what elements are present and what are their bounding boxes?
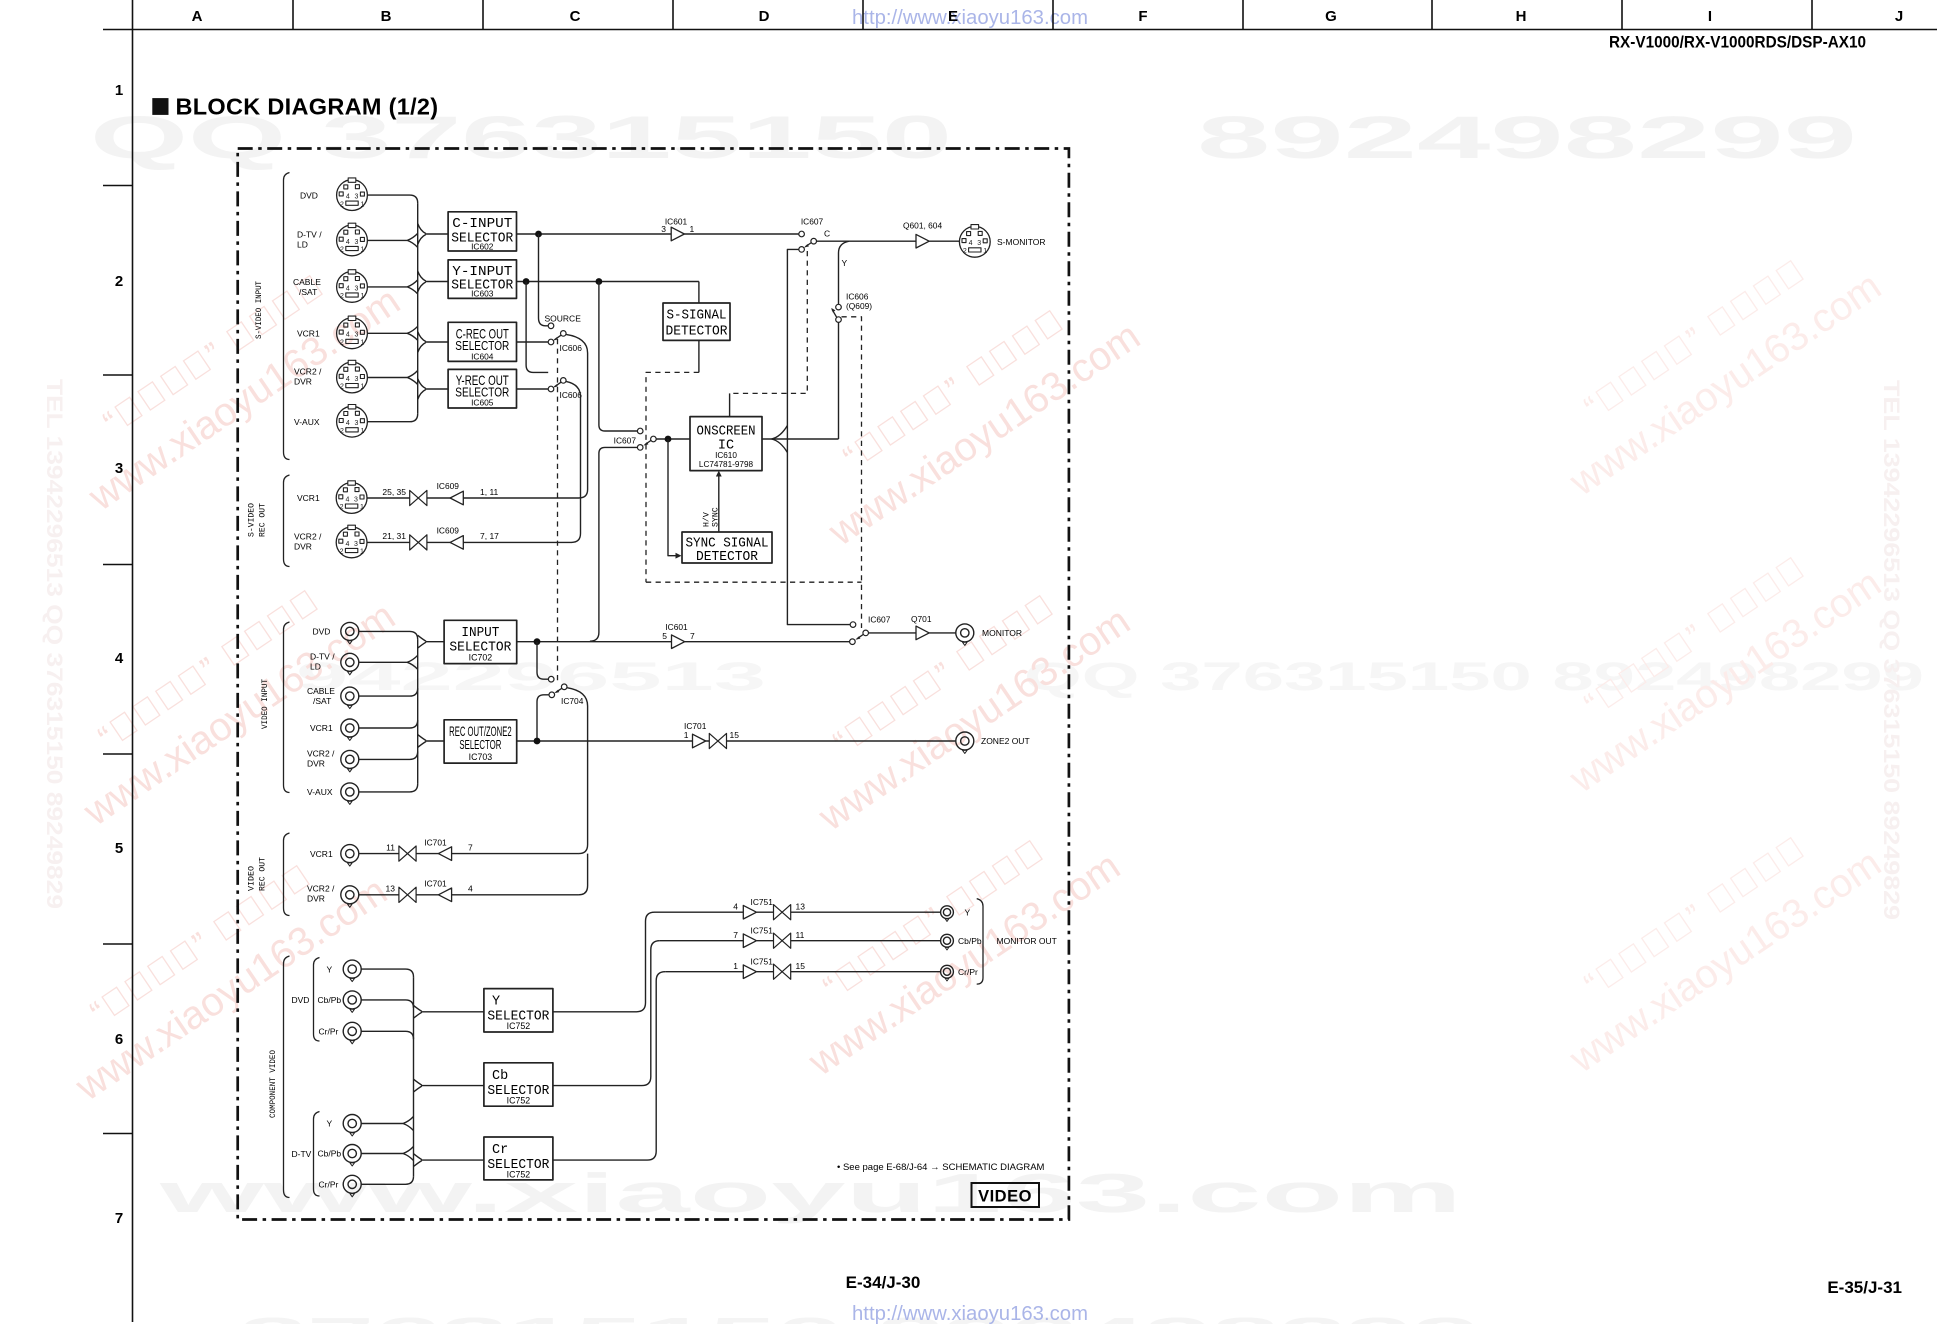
svg-text:/SAT: /SAT <box>299 287 317 297</box>
amp IC701 (zone2 1) <box>693 734 706 748</box>
wire IC601 out to IC607 row4 <box>685 641 850 643</box>
node funnel into REC OUT/ZONE2 SELECTOR <box>418 735 426 748</box>
switch IC607 (OSD input) <box>614 428 657 450</box>
wire IC607 common to ONSCREEN <box>656 438 690 440</box>
svg-text:IC751: IC751 <box>751 956 774 966</box>
svg-text:IC603: IC603 <box>471 289 494 299</box>
svg-text:LC74781-9798: LC74781-9798 <box>699 460 754 469</box>
amp IC601 (video 5-7) <box>672 635 685 649</box>
svg-text:SOURCE: SOURCE <box>545 313 582 323</box>
svg-text:13: 13 <box>796 901 806 911</box>
svg-text:1: 1 <box>690 224 695 234</box>
wire IC704 common to rec-out vertical <box>567 688 588 854</box>
svg-text:DVR: DVR <box>294 377 312 387</box>
transistor Q601,604 buffer <box>916 234 929 248</box>
svg-text:IC752: IC752 <box>507 1021 531 1031</box>
svg-text:INPUT: INPUT <box>461 626 499 641</box>
svg-text:Cr/Pr: Cr/Pr <box>319 1027 339 1037</box>
connector VCR1 vrec (rca) <box>341 845 359 867</box>
node funnel into INPUT SELECTOR <box>418 635 426 648</box>
svg-text:7: 7 <box>115 1210 123 1227</box>
brace VIDEO INPUT group <box>284 622 290 793</box>
transistor Q701 buffer <box>916 626 929 640</box>
wire IC606-C common to rec-out vertical <box>566 334 588 498</box>
svg-text:3: 3 <box>115 460 123 477</box>
IC752 Cb SELECTOR box <box>484 1063 553 1106</box>
svg-text:BLOCK DIAGRAM (1/2): BLOCK DIAGRAM (1/2) <box>176 94 439 120</box>
junction input-sel output <box>534 638 541 645</box>
svg-text:5: 5 <box>662 631 667 641</box>
wire Cb SELECTOR output riser <box>553 941 660 1086</box>
junction Y-out drop2 <box>596 278 603 285</box>
svg-text:S-VIDEO: S-VIDEO <box>247 503 257 537</box>
wire funnel to REC OUT/ZONE2 SELECTOR <box>426 740 445 742</box>
brace D-TV component sub-group <box>314 1112 320 1197</box>
wire OSD switch lower contact to row4 <box>590 447 638 641</box>
wire VCR1 to video bus <box>359 720 418 728</box>
svg-text:IC605: IC605 <box>471 397 494 407</box>
amp IC751 Cb pin7 <box>743 934 756 948</box>
connector DVD (s-video) <box>337 178 368 211</box>
dashed OSD box bottom <box>646 581 862 583</box>
wire CABLE/SAT to s-video bus <box>368 280 418 294</box>
IC605 Y-REC OUT SELECTOR box <box>448 369 516 408</box>
svg-text:DVR: DVR <box>307 759 325 769</box>
connector D-TV Cr/Pr (rca) <box>343 1175 361 1197</box>
wire REC OUT selector output to IC701 <box>517 740 693 742</box>
DIAGRAM BORDER dash-dot <box>238 149 1069 1220</box>
wire C-REC OUT selector output <box>517 341 549 343</box>
wire DVD to video bus <box>359 631 418 639</box>
S-SIGNAL DETECTOR box <box>663 303 730 340</box>
svg-text:D: D <box>759 8 770 25</box>
svg-text:IC752: IC752 <box>507 1170 531 1180</box>
node funnel into Y-INPUT SELECTOR <box>418 271 426 292</box>
wire DTV-Y to comp bus <box>361 1117 413 1131</box>
wire VCR1 rec line <box>367 497 579 499</box>
svg-text:http://www.xiaoyu163.com: http://www.xiaoyu163.com <box>852 1303 1088 1324</box>
wire IC607 row4 common to Q701 <box>868 632 916 634</box>
svg-text:IC607: IC607 <box>868 615 891 625</box>
svg-text:VCR2 /: VCR2 / <box>294 367 322 377</box>
wire DTV-Cr to comp bus <box>361 1176 413 1184</box>
connector S-MONITOR <box>959 225 990 258</box>
connector V-AUX (s-video) <box>337 405 368 438</box>
svg-text:3: 3 <box>661 224 666 234</box>
amp IC751 Y pin4 <box>743 905 756 919</box>
svg-text:SELECTOR: SELECTOR <box>459 737 501 752</box>
wire DVD-Y to comp bus <box>361 969 413 977</box>
svg-text:A: A <box>192 8 203 25</box>
switch IC606 (Q609) <box>831 291 872 322</box>
svg-text:IC602: IC602 <box>471 242 494 252</box>
IC752 Cr SELECTOR box <box>484 1137 553 1180</box>
svg-text:Y: Y <box>842 258 848 268</box>
wire V-AUX to s-video bus <box>368 414 418 422</box>
svg-text:RX-V1000/RX-V1000RDS/DSP-AX10: RX-V1000/RX-V1000RDS/DSP-AX10 <box>1609 33 1866 52</box>
svg-text:IC704: IC704 <box>561 696 584 706</box>
svg-text:IC751: IC751 <box>751 925 774 935</box>
svg-text:V-AUX: V-AUX <box>307 787 333 797</box>
svg-text:VCR1: VCR1 <box>310 723 333 733</box>
svg-text:H: H <box>1516 8 1527 25</box>
svg-text:(Q609): (Q609) <box>846 301 872 311</box>
wire Q609 down to onscreen funnel <box>838 322 840 439</box>
wire funnel to Y-REC OUT SELECTOR <box>426 388 449 390</box>
wire zone2 line <box>706 740 956 742</box>
wire Y drop to Y-REC switch contact <box>526 282 548 373</box>
attenuator IC609 pins 21,31 <box>410 535 427 550</box>
svg-text:6: 6 <box>115 1031 123 1048</box>
switch IC607 (row4) <box>850 615 891 645</box>
svg-text:• See page E-68/J-64 → SCHEMAT: • See page E-68/J-64 → SCHEMATIC DIAGRAM <box>837 1162 1045 1173</box>
svg-text:E: E <box>948 8 958 25</box>
connector VCR2/DVR vrec (rca) <box>341 886 359 908</box>
amp IC609 output 1,11 <box>450 491 463 505</box>
wire CABLE to video bus <box>359 688 418 696</box>
dashed control line Q609 to IC607 row4 <box>842 317 862 628</box>
attenuator IC751 Y pin13 <box>774 905 791 920</box>
brace MONITOR OUT group <box>977 899 983 985</box>
connector VCR1 (s-video) <box>337 316 368 349</box>
svg-text:1, 11: 1, 11 <box>480 487 499 497</box>
wire VCR2 vrec line <box>359 894 579 896</box>
svg-text:1: 1 <box>115 82 123 99</box>
svg-text:IC701: IC701 <box>424 837 447 847</box>
svg-text:DETECTOR: DETECTOR <box>696 550 758 565</box>
ONSCREEN IC box <box>690 417 762 471</box>
svg-text:4: 4 <box>733 901 738 911</box>
wire H/V SYNC up arrow <box>718 475 720 532</box>
svg-text:IC606: IC606 <box>846 291 869 301</box>
svg-text:IC751: IC751 <box>751 897 774 907</box>
svg-text:15: 15 <box>796 961 806 971</box>
wire video input bus <box>417 639 419 784</box>
svg-text:VIDEO: VIDEO <box>978 1188 1032 1206</box>
svg-text:IC601: IC601 <box>665 622 688 632</box>
svg-text:4: 4 <box>115 650 124 667</box>
svg-text:SYNC: SYNC <box>712 507 721 527</box>
svg-text:MONITOR OUT: MONITOR OUT <box>997 936 1057 946</box>
connector D-TV Cb/Pb (rca) <box>343 1145 361 1167</box>
wire IC601 out to IC607 contact <box>684 233 798 235</box>
wire Cr monitor line <box>665 971 940 973</box>
svg-text:IC606: IC606 <box>560 390 583 400</box>
svg-text:2: 2 <box>115 273 123 290</box>
node funnel into ONSCREEN right <box>772 426 788 453</box>
svg-text:CABLE: CABLE <box>293 277 321 287</box>
wire rec-out vertical lower exit <box>579 854 588 895</box>
connector Cr/Pr monitor out <box>941 965 954 981</box>
svg-text:11: 11 <box>796 930 805 940</box>
dashed control line IC607 top <box>730 251 808 393</box>
svg-text:IC606: IC606 <box>560 343 583 353</box>
attenuator IC751 Cb pin11 <box>774 933 791 948</box>
attenuator IC751 Cr pin15 <box>774 964 791 979</box>
connector D-TV Y (rca) <box>343 1115 361 1137</box>
svg-text:REC OUT: REC OUT <box>258 503 268 537</box>
svg-text:C-INPUT: C-INPUT <box>452 217 512 232</box>
connector Cb/Pb monitor out <box>941 934 954 950</box>
wire Y monitor line <box>655 911 941 913</box>
wire Cr SELECTOR output riser <box>553 972 665 1160</box>
wire funnel to INPUT SELECTOR <box>426 641 445 643</box>
brace S-VIDEO INPUT group <box>284 173 290 460</box>
wire funnel to Cb SELECTOR <box>421 1085 484 1087</box>
wire funnel to C-INPUT SELECTOR <box>426 233 449 235</box>
connector CABLE/SAT (s-video) <box>337 270 368 303</box>
switch IC607 (S top) <box>799 217 830 253</box>
node funnel into C-INPUT SELECTOR <box>418 224 426 245</box>
wire DVD-Cr to comp bus <box>361 1031 413 1039</box>
IC604 C-REC OUT SELECTOR box <box>448 322 516 361</box>
IC752 Y SELECTOR box <box>484 989 553 1032</box>
svg-text:4: 4 <box>468 884 473 894</box>
svg-text:D-TV /: D-TV / <box>310 652 335 662</box>
connector VCR2/DVR (rca) <box>341 750 359 772</box>
svg-text:DVR: DVR <box>294 541 312 551</box>
wire junction to IC704 upper contact <box>537 642 548 680</box>
svg-text:DVD: DVD <box>292 995 310 1005</box>
svg-text:VIDEO: VIDEO <box>247 866 257 891</box>
wire Y SELECTOR output riser <box>553 912 655 1012</box>
svg-text:21, 31: 21, 31 <box>382 531 406 541</box>
connector ZONE2 OUT (rca) <box>956 732 974 754</box>
svg-text:Y: Y <box>965 907 971 917</box>
wire Y-INPUT output <box>517 281 699 283</box>
junction OSD input <box>665 436 672 443</box>
junction C-out drop <box>535 231 542 238</box>
SYNC SIGNAL DETECTOR box <box>682 532 772 565</box>
wire S-SIGNAL bottom stub <box>698 340 700 372</box>
brace S-VIDEO REC OUT group <box>284 475 290 567</box>
svg-text:F: F <box>1138 8 1147 25</box>
svg-text:VCR1: VCR1 <box>297 329 320 339</box>
WATERMARKS-PINK <box>39 222 1904 1110</box>
svg-text:E-35/J-31: E-35/J-31 <box>1827 1278 1902 1297</box>
wire sync branch down <box>668 439 677 556</box>
connector DVD Y (rca) <box>343 960 361 982</box>
svg-text:7: 7 <box>690 631 695 641</box>
svg-text:S-VIDEO INPUT: S-VIDEO INPUT <box>254 281 264 339</box>
node funnel into Cr SELECTOR <box>414 1154 422 1167</box>
node funnel into Y SELECTOR <box>414 1005 422 1018</box>
connector DVD Cb/Pb (rca) <box>343 991 361 1013</box>
svg-text:REC OUT: REC OUT <box>258 857 268 891</box>
svg-text:DVR: DVR <box>307 894 325 904</box>
svg-text:892498299: 892498299 <box>1197 104 1857 171</box>
svg-text:5: 5 <box>115 840 123 857</box>
switch IC606 (C-REC OUT) <box>548 331 582 353</box>
wire DVD to s-video bus <box>368 195 418 203</box>
svg-text:VCR2 /: VCR2 / <box>307 749 335 759</box>
dashed link S-SIGNAL to OSD box <box>646 372 699 582</box>
svg-text:MONITOR: MONITOR <box>982 628 1022 638</box>
connector DVD Cr/Pr (rca) <box>343 1022 361 1044</box>
svg-text:Cb/Pb: Cb/Pb <box>318 995 342 1005</box>
svg-text:Cb/Pb: Cb/Pb <box>318 1149 342 1159</box>
wire s-video input bus <box>417 203 419 414</box>
svg-text:TEL 13942296513 QQ 376315150 8: TEL 13942296513 QQ 376315150 89249829 <box>1879 380 1904 920</box>
svg-text:IC702: IC702 <box>469 652 493 662</box>
wire VCR2 to video bus <box>359 751 418 759</box>
svg-text:IC607: IC607 <box>801 217 824 227</box>
node funnel into Cb SELECTOR <box>414 1079 422 1092</box>
connector V-AUX (rca) <box>341 783 359 805</box>
svg-text:IC601: IC601 <box>665 216 688 226</box>
amp IC751 Cr pin1 <box>743 965 756 979</box>
svg-text:J: J <box>1895 8 1903 25</box>
wire V-AUX to video bus <box>359 784 418 792</box>
connector D-TV/LD (s-video) <box>337 223 368 256</box>
wire VCR1 to s-video bus <box>368 326 418 340</box>
wire D-TV to video bus <box>359 655 418 669</box>
svg-text:COMPONENT VIDEO: COMPONENT VIDEO <box>268 1050 278 1118</box>
svg-text:LD: LD <box>297 239 308 249</box>
brace VIDEO REC OUT group <box>284 833 290 916</box>
wire C drop to SOURCE contact <box>539 234 549 326</box>
wire funnel to C-REC OUT SELECTOR <box>426 341 449 343</box>
svg-text:I: I <box>1708 8 1712 25</box>
svg-text:C: C <box>824 229 830 239</box>
dashed control line IC606 chain <box>557 339 559 684</box>
wire funnel to Y SELECTOR <box>421 1011 484 1013</box>
wire Q701 to MONITOR <box>929 632 955 634</box>
wire INPUT SELECTOR output to IC601 <box>517 641 672 643</box>
connector VCR2/DVR (s-video) <box>337 360 368 393</box>
amp IC701 out 7 <box>438 847 451 861</box>
wire VCR2 rec line <box>367 541 572 543</box>
TITLE <box>152 98 168 115</box>
svg-text:IC609: IC609 <box>437 526 460 536</box>
svg-text:Q601, 604: Q601, 604 <box>903 220 942 230</box>
svg-text:D-TV /: D-TV / <box>297 229 322 239</box>
connector Y monitor out <box>941 906 954 922</box>
wire S-SIGNAL tap from Y line <box>698 282 700 304</box>
connector CABLE/SAT (rca) <box>341 687 359 709</box>
svg-text:IC609: IC609 <box>437 481 460 491</box>
svg-text:DVD: DVD <box>313 627 331 637</box>
VIDEO tag box <box>972 1183 1040 1207</box>
IC703 REC OUT/ZONE2 SELECTOR box <box>444 720 517 763</box>
svg-text:Y: Y <box>327 964 333 974</box>
connector DVD (rca) <box>341 622 359 644</box>
junction Y-out drop1 <box>523 278 530 285</box>
attenuator IC701 out 15 <box>709 733 726 748</box>
connector MONITOR (rca) <box>956 624 974 646</box>
svg-text:Y: Y <box>492 995 500 1010</box>
svg-text:11: 11 <box>386 842 395 852</box>
IC702 INPUT SELECTOR box <box>444 620 517 663</box>
svg-text:S-SIGNAL: S-SIGNAL <box>667 309 727 324</box>
connector VCR2/DVR rec (s-video) <box>336 525 367 558</box>
svg-text:Q701: Q701 <box>911 614 932 624</box>
node SOURCE contact <box>548 323 554 329</box>
svg-text:H/V: H/V <box>702 512 712 527</box>
svg-text:Cr: Cr <box>492 1143 508 1158</box>
svg-text:7: 7 <box>468 842 473 852</box>
wire component bus <box>413 977 415 1176</box>
attenuator IC609 pins 25,35 <box>410 490 427 505</box>
svg-text:TEL 13942296513 QQ 376315150 8: TEL 13942296513 QQ 376315150 89249829 <box>42 379 67 909</box>
svg-text:Cb: Cb <box>492 1069 508 1084</box>
svg-text:15: 15 <box>730 730 740 740</box>
svg-text:E-34/J-30: E-34/J-30 <box>846 1273 921 1292</box>
svg-text:IC752: IC752 <box>507 1095 531 1105</box>
svg-text:VCR2 /: VCR2 / <box>294 531 322 541</box>
svg-text:C: C <box>570 8 581 25</box>
svg-text:DVD: DVD <box>300 190 318 200</box>
wire C-INPUT output to IC601 <box>517 233 672 235</box>
svg-text:VCR2 /: VCR2 / <box>307 884 335 894</box>
wire ONSCREEN right to Y line <box>762 438 839 440</box>
attenuator IC701 pin 13 <box>399 887 416 902</box>
svg-text:V-AUX: V-AUX <box>294 417 320 427</box>
wire Q601 to S-MONITOR <box>929 240 959 242</box>
svg-text:ZONE2 OUT: ZONE2 OUT <box>981 736 1030 746</box>
svg-text:IC604: IC604 <box>471 351 494 361</box>
svg-text:CABLE: CABLE <box>307 686 335 696</box>
wire D-TV/LD to s-video bus <box>368 233 418 247</box>
svg-text:/SAT: /SAT <box>313 696 331 706</box>
brace DVD component sub-group <box>314 958 320 1042</box>
svg-text:Cr/Pr: Cr/Pr <box>319 1180 339 1190</box>
svg-text:S-MONITOR: S-MONITOR <box>997 237 1045 247</box>
svg-text:7: 7 <box>733 930 738 940</box>
junction rec-out <box>534 738 541 745</box>
svg-text:1: 1 <box>733 961 738 971</box>
svg-text:7, 17: 7, 17 <box>480 531 499 541</box>
svg-text:IC610: IC610 <box>715 451 737 460</box>
svg-text:IC607: IC607 <box>614 436 637 446</box>
svg-text:VIDEO INPUT: VIDEO INPUT <box>260 679 270 729</box>
wire DTV-Cb to comp bus <box>361 1147 413 1161</box>
attenuator IC701 pin 11 <box>399 846 416 861</box>
svg-text:LD: LD <box>310 662 321 672</box>
amp IC701 out 4 <box>438 888 451 902</box>
node funnel into C-REC OUT SELECTOR <box>418 332 426 353</box>
wire funnel to Cr SELECTOR <box>421 1159 484 1161</box>
wire Y branch curve down <box>839 241 850 304</box>
switch IC704 <box>548 676 583 706</box>
svg-text:B: B <box>381 8 392 25</box>
switch IC606 (Y-REC OUT) <box>548 378 582 400</box>
svg-text:Cr/Pr: Cr/Pr <box>958 967 978 977</box>
wire C vertical from IC607 to row4 <box>787 249 850 624</box>
brace COMPONENT VIDEO group <box>284 956 290 1198</box>
connector D-TV/LD (rca) <box>341 653 359 675</box>
amp IC601 (C 3-1) <box>671 227 684 241</box>
IC603 Y-INPUT SELECTOR box <box>448 260 516 299</box>
wire Cb monitor line <box>660 940 941 942</box>
connector VCR1 (rca) <box>341 719 359 741</box>
wire IC606-Y common to rec-out vertical <box>566 381 581 542</box>
svg-text:Cb/Pb: Cb/Pb <box>958 936 982 946</box>
svg-text:1: 1 <box>684 730 689 740</box>
wire funnel to Y-INPUT SELECTOR <box>426 281 449 283</box>
IC602 C-INPUT SELECTOR box <box>448 212 516 252</box>
svg-text:Y: Y <box>327 1119 333 1129</box>
wire x600 from Y junction to OSD switch <box>599 282 638 432</box>
wire DVD-Cb to comp bus <box>361 1000 413 1008</box>
svg-text:13: 13 <box>386 884 396 894</box>
wire IC704 lower contact to zone2 junction <box>537 695 549 741</box>
svg-text:IC701: IC701 <box>424 879 447 889</box>
svg-text:ONSCREEN: ONSCREEN <box>697 425 756 440</box>
node funnel into Y-REC OUT SELECTOR <box>418 379 426 400</box>
wire Y-REC OUT selector output <box>517 388 549 390</box>
svg-text:VCR1: VCR1 <box>297 493 320 503</box>
